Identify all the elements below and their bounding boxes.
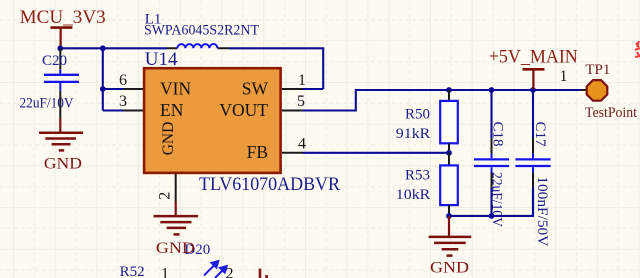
svg-text:TP1: TP1	[585, 62, 610, 78]
wire left drop	[102, 48, 104, 110]
svg-text:1: 1	[298, 72, 306, 89]
pin 5 VOUT	[282, 110, 303, 112]
svg-text:1: 1	[161, 266, 169, 278]
svg-text:3: 3	[119, 93, 127, 110]
wire bottom net	[449, 188, 533, 216]
svg-text:EN: EN	[160, 100, 184, 120]
svg-text:FB: FB	[247, 142, 268, 162]
svg-text:GND: GND	[44, 155, 82, 172]
svg-text:22uF/10V: 22uF/10V	[20, 96, 74, 112]
svg-text:TestPoint: TestPoint	[585, 105, 638, 121]
junction (102.8,89)	[100, 86, 106, 92]
pin 4 FB	[282, 152, 303, 154]
svg-text:2: 2	[157, 192, 174, 200]
svg-text:GND: GND	[156, 240, 195, 257]
junction (60.3,48.3)	[57, 45, 63, 51]
svg-text:C20: C20	[42, 53, 67, 69]
svg-text:6: 6	[119, 72, 127, 89]
junction (102.8,48.3)	[100, 45, 106, 51]
pin 2 GND bottom	[175, 174, 177, 201]
wire pin3 stub	[103, 109, 124, 111]
inductor L1	[144, 11, 259, 48]
capacitor C17	[515, 90, 550, 246]
wire pin6 stub	[103, 88, 124, 90]
red mark right edge	[635, 41, 640, 57]
svg-text:5: 5	[297, 93, 305, 110]
svg-text:GND: GND	[160, 122, 177, 156]
power port +5V_MAIN	[489, 47, 578, 90]
pin 6	[124, 88, 145, 90]
partial symbol bottom right	[260, 269, 267, 278]
svg-text:100nF/50V: 100nF/50V	[534, 176, 550, 246]
capacitor C20	[20, 48, 80, 118]
svg-text:U14: U14	[145, 49, 178, 70]
svg-text:VIN: VIN	[160, 79, 191, 99]
LED arrows D20	[204, 260, 227, 278]
svg-text:SWPA6045S2R2NT: SWPA6045S2R2NT	[144, 22, 259, 38]
svg-text:TLV61070ADBVR: TLV61070ADBVR	[199, 174, 340, 195]
junction FB node	[446, 150, 452, 156]
svg-text:C17: C17	[532, 122, 548, 148]
svg-text:R53: R53	[405, 167, 430, 183]
ground below pin2	[154, 201, 199, 257]
wire top net	[60, 47, 167, 49]
resistor R53	[396, 153, 458, 216]
svg-text:SW: SW	[242, 79, 269, 99]
svg-text:GND: GND	[430, 259, 469, 276]
ground below R53	[429, 216, 472, 276]
svg-text:R50: R50	[405, 106, 430, 122]
capacitor C18	[474, 90, 509, 227]
svg-text:22uF/10V: 22uF/10V	[489, 172, 505, 227]
svg-text:C18: C18	[490, 122, 506, 147]
op IC U14	[144, 49, 340, 195]
svg-text:1: 1	[560, 68, 568, 85]
junctions on output net	[446, 87, 452, 93]
pin 3	[124, 110, 145, 112]
junction (449,215.9)	[446, 213, 452, 219]
svg-text:R52: R52	[120, 264, 145, 278]
ground below C20	[39, 118, 83, 172]
svg-text:MCU_3V3: MCU_3V3	[20, 7, 106, 28]
pin 1 SW	[282, 88, 303, 90]
resistor R50	[396, 90, 458, 153]
svg-text:4: 4	[298, 136, 306, 153]
svg-text:VOUT: VOUT	[219, 100, 268, 120]
junction (491.5,215.9)	[489, 213, 495, 219]
test point TP1	[560, 62, 638, 121]
svg-text:10kR: 10kR	[396, 187, 431, 203]
svg-text:+5V_MAIN: +5V_MAIN	[489, 47, 578, 68]
power port MCU_3V3	[20, 7, 106, 47]
wire top net right of inductor	[229, 48, 323, 89]
svg-text:91kR: 91kR	[396, 126, 431, 142]
